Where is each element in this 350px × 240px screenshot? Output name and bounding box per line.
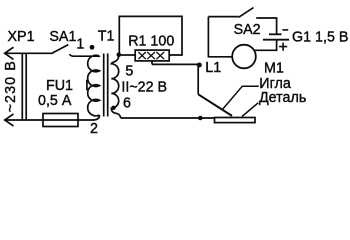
leader Деталь xyxy=(242,103,258,117)
svg-text:2: 2 xyxy=(90,121,98,137)
svg-text:6: 6 xyxy=(123,95,131,111)
leader Игла xyxy=(222,86,258,109)
wire SA2 to battery xyxy=(256,18,276,34)
wire R1 tap to L1 xyxy=(152,61,199,65)
battery plus sign xyxy=(279,43,287,51)
plug XP1 bottom arrow xyxy=(5,114,14,126)
svg-text:Деталь: Деталь xyxy=(259,90,306,106)
resistor R1 body xyxy=(135,50,169,61)
junction dot on rail xyxy=(198,116,203,121)
wire node A to R1 left xyxy=(119,54,136,56)
switch SA1 blade xyxy=(51,45,68,54)
wire bottom rail left xyxy=(5,119,43,121)
node dot pin1 (winding start) xyxy=(90,45,95,50)
cord line left xyxy=(21,53,23,120)
battery G1 long plate (plus) xyxy=(263,39,289,41)
switch SA2 blade xyxy=(239,8,254,18)
svg-text:T1: T1 xyxy=(98,29,115,45)
battery minus sign xyxy=(282,29,288,31)
fuse FU1 xyxy=(43,114,78,127)
svg-text:~230 В: ~230 В xyxy=(3,60,19,112)
wire L1 down to needle xyxy=(197,65,199,94)
battery G1 short plate (minus) xyxy=(269,33,282,35)
svg-text:R1 100: R1 100 xyxy=(128,33,174,49)
svg-text:FU1: FU1 xyxy=(46,78,73,94)
T1 core xyxy=(103,54,105,117)
svg-text:XP1: XP1 xyxy=(8,29,35,45)
wire top rail xyxy=(5,52,51,54)
cord line right xyxy=(25,53,27,120)
svg-text:G1 1,5 В: G1 1,5 В xyxy=(292,30,348,46)
motor loop top wire xyxy=(208,16,238,18)
wire battery to motor xyxy=(254,41,277,51)
resistor R1 ring wire xyxy=(119,16,182,55)
node L1 dot xyxy=(197,63,202,68)
needle xyxy=(198,94,232,116)
wire primary bottom to fuse xyxy=(78,115,100,120)
svg-text:M1: M1 xyxy=(264,61,284,77)
svg-text:SA1: SA1 xyxy=(49,29,76,45)
workpiece bar xyxy=(215,118,256,123)
svg-text:1: 1 xyxy=(76,37,84,53)
plug XP1 top arrow xyxy=(5,47,14,59)
motor M1 xyxy=(232,45,256,69)
T1 secondary winding II xyxy=(111,55,120,118)
svg-text:II~22 В: II~22 В xyxy=(121,79,167,95)
node A dot xyxy=(117,52,122,57)
wire pin6 to bottom rail right xyxy=(121,117,215,119)
wire SA1 to T1 primary xyxy=(70,54,100,57)
polarity dot pin 6 xyxy=(111,106,115,110)
svg-text:SA2: SA2 xyxy=(234,22,261,38)
svg-text:0,5 А: 0,5 А xyxy=(38,93,72,109)
svg-text:L1: L1 xyxy=(205,60,221,76)
svg-text:5: 5 xyxy=(125,64,133,80)
motor loop left wire xyxy=(208,17,232,57)
svg-text:I: I xyxy=(85,78,89,94)
T1 primary winding I xyxy=(88,55,100,115)
R1 hatch X marks xyxy=(138,52,164,59)
